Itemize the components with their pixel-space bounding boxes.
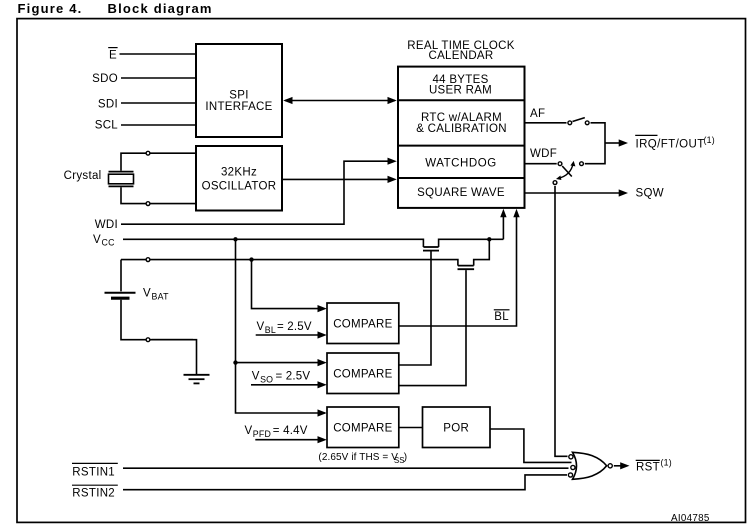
overline for RST (636, 459, 660, 461)
block COMPARE 3 (327, 407, 399, 448)
contact circle battery top (146, 258, 150, 262)
label REAL TIME CLOCK CALENDAR (407, 40, 514, 62)
overline for RSTIN1 (72, 462, 118, 464)
svg-text:Figure 4.: Figure 4. (18, 1, 83, 16)
switch WDF blade (562, 166, 572, 177)
block RTC (outer) (398, 67, 525, 208)
crystal X1 (109, 172, 134, 187)
wire SDI to SPI (121, 102, 197, 104)
overline for BL (494, 309, 510, 311)
node junction compare2 branch (233, 360, 237, 364)
wire compare3 to POR (399, 427, 423, 429)
svg-text:BL: BL (265, 325, 276, 335)
svg-text:COMPARE: COMPARE (333, 369, 392, 381)
svg-text:CALENDAR: CALENDAR (428, 50, 493, 62)
wire SCL to SPI (121, 124, 197, 126)
wire VSO input to compare2 (251, 381, 327, 388)
block POR (423, 407, 491, 448)
wire branch to compare2 top input (236, 362, 319, 364)
wire crystal top to oscillator (121, 153, 197, 171)
svg-text:V: V (143, 288, 151, 300)
switch WDF pole contact (553, 181, 557, 185)
wire IRQ output (605, 139, 628, 146)
switch AF contact left (568, 121, 572, 125)
overline for RSTIN2 (72, 484, 118, 486)
wire AF contact to output node (585, 123, 605, 164)
ground (184, 375, 210, 384)
svg-text:E: E (109, 50, 117, 62)
wire Q1 gate to compare2 output (400, 252, 432, 366)
input bubble 3 (568, 473, 572, 477)
svg-text:COMPARE: COMPARE (333, 319, 392, 331)
wire battery rail with transistor Q2 source/drain path (121, 239, 489, 265)
svg-text:AI04785: AI04785 (671, 513, 710, 524)
switch WDF contact right (580, 162, 584, 166)
svg-text:WATCHDOG: WATCHDOG (425, 157, 496, 169)
switch AF blade (573, 118, 585, 122)
wire WDF from RTC block (526, 163, 557, 165)
svg-text:(1): (1) (704, 135, 715, 145)
svg-text:= 4.4V: = 4.4V (273, 425, 308, 437)
wire RST output (614, 462, 630, 469)
svg-text:USER RAM: USER RAM (429, 84, 492, 96)
wire battery to ground (152, 340, 197, 375)
svg-text:INTERFACE: INTERFACE (205, 101, 272, 113)
arrowheads of toggle arrow (570, 161, 575, 167)
svg-text:SO: SO (260, 375, 273, 385)
divider rtc / watchdog (398, 145, 525, 147)
svg-text:PFD: PFD (253, 429, 271, 439)
label VBL = 2.5V (257, 321, 312, 335)
svg-text:& CALIBRATION: & CALIBRATION (416, 123, 507, 135)
input bubble 1 (569, 455, 573, 459)
svg-text:IRQ/FT/OUT: IRQ/FT/OUT (636, 139, 705, 151)
contact circle crystal bottom (146, 202, 150, 206)
svg-text:V: V (252, 371, 260, 383)
wire compare1 output BL up into square wave block (399, 209, 520, 326)
svg-text:(2.65V if THS = V: (2.65V if THS = V (318, 452, 398, 463)
svg-text:= 2.5V: = 2.5V (277, 321, 312, 333)
pin label E (active low) (109, 50, 117, 62)
label IRQ/FT/OUT(1) (636, 135, 715, 151)
svg-text:Block diagram: Block diagram (108, 1, 213, 16)
svg-text:SQW: SQW (636, 188, 664, 200)
wire POR output to reset gate (490, 429, 571, 462)
svg-text:AF: AF (530, 108, 545, 120)
wire VBL input to compare1 (256, 331, 327, 338)
wire AF from RTC block (526, 122, 567, 124)
wire SDO to SPI (121, 77, 197, 79)
svg-text:COMPARE: COMPARE (333, 423, 392, 435)
wire supply up into square wave block (500, 209, 506, 240)
label RST(1) (636, 457, 672, 473)
svg-text:SDO: SDO (92, 73, 118, 85)
overline for IRQ (635, 134, 657, 136)
switch AF contact right (585, 121, 589, 125)
block SPI INTERFACE (196, 44, 282, 137)
svg-text:OSCILLATOR: OSCILLATOR (202, 181, 277, 193)
wire SPI to RTC (bidirectional arrow) (283, 97, 397, 104)
svg-text:V: V (93, 234, 101, 246)
contact circle battery bottom (146, 338, 150, 342)
svg-text:= 2.5V: = 2.5V (276, 371, 311, 383)
transistor Q2 gate bar (458, 268, 475, 270)
wire VPFD input to compare3 (255, 436, 326, 443)
battery B1 (105, 260, 194, 340)
svg-text:SQUARE WAVE: SQUARE WAVE (417, 187, 505, 199)
transistor Q1 channel bar (423, 246, 438, 248)
wire SQW output (526, 189, 629, 196)
wire RSTIN2 to reset gate (123, 475, 567, 490)
output bubble (608, 464, 612, 468)
section 44 BYTES USER RAM (429, 74, 492, 96)
svg-text:POR: POR (443, 422, 469, 434)
svg-text:WDF: WDF (530, 148, 557, 160)
svg-text:RSTIN1: RSTIN1 (72, 466, 115, 478)
wire WDF pole down to reset gate (555, 186, 568, 456)
svg-text:BL: BL (494, 311, 509, 323)
svg-text:): ) (404, 452, 407, 463)
svg-text:SCL: SCL (95, 120, 119, 132)
label VSO = 2.5V (252, 371, 311, 385)
note (2.65V if THS = VSS) (318, 452, 407, 465)
svg-text:V: V (257, 321, 265, 333)
node junction switched supply (487, 237, 491, 241)
divider watchdog / square wave (398, 177, 525, 179)
node junction battery rail to compare1 (249, 257, 253, 261)
transistor Q1 gate bar (423, 250, 439, 252)
wire VCC down to compare2/compare3 (236, 239, 326, 413)
label VBAT (143, 288, 169, 302)
figure title (18, 1, 213, 16)
divider user ram / rtc (398, 99, 525, 101)
block 32KHz OSCILLATOR (196, 146, 282, 211)
svg-text:V: V (245, 425, 253, 437)
transistor Q2 channel bar (458, 265, 474, 267)
wire oscillator to square wave block (283, 176, 397, 183)
svg-text:RSTIN2: RSTIN2 (72, 488, 115, 500)
pin label VCC (93, 234, 115, 248)
svg-text:Crystal: Crystal (64, 170, 102, 182)
arrowhead into compare3 top input (318, 409, 327, 416)
svg-text:WDI: WDI (95, 219, 118, 231)
node junction VCC / comparator feed (233, 237, 237, 241)
svg-text:32KHz: 32KHz (221, 167, 257, 179)
svg-text:(1): (1) (661, 457, 672, 467)
input bubble 2 (571, 465, 575, 469)
wire branch to compare1 top input (252, 260, 327, 313)
section RTC w/ALARM & CALIBRATION (416, 112, 507, 135)
wire crystal bottom to oscillator (121, 187, 197, 203)
wire RSTIN1 to reset gate (123, 467, 569, 469)
label VPFD = 4.4V (245, 425, 308, 439)
svg-text:BAT: BAT (152, 291, 170, 301)
wire E to SPI (120, 53, 198, 55)
switch WDF toggle arrow (558, 163, 573, 178)
overline for E (108, 47, 117, 49)
wire VCC rail with transistor Q1 source/drain path (123, 239, 503, 247)
reset gate U1 (NOR) body (573, 452, 607, 479)
svg-text:SPI: SPI (229, 90, 248, 102)
wire WDI to watchdog (121, 158, 397, 225)
switch WDF contact left (558, 162, 562, 166)
svg-text:CC: CC (102, 238, 116, 248)
arrowhead into compare2 top input (318, 359, 327, 366)
block COMPARE 1 (327, 303, 399, 344)
wire Q2 gate to compare2 lower output (400, 270, 467, 386)
svg-text:SDI: SDI (98, 98, 118, 110)
block COMPARE 2 (327, 353, 399, 394)
contact circle crystal top (146, 151, 150, 155)
svg-text:RST: RST (636, 461, 660, 473)
